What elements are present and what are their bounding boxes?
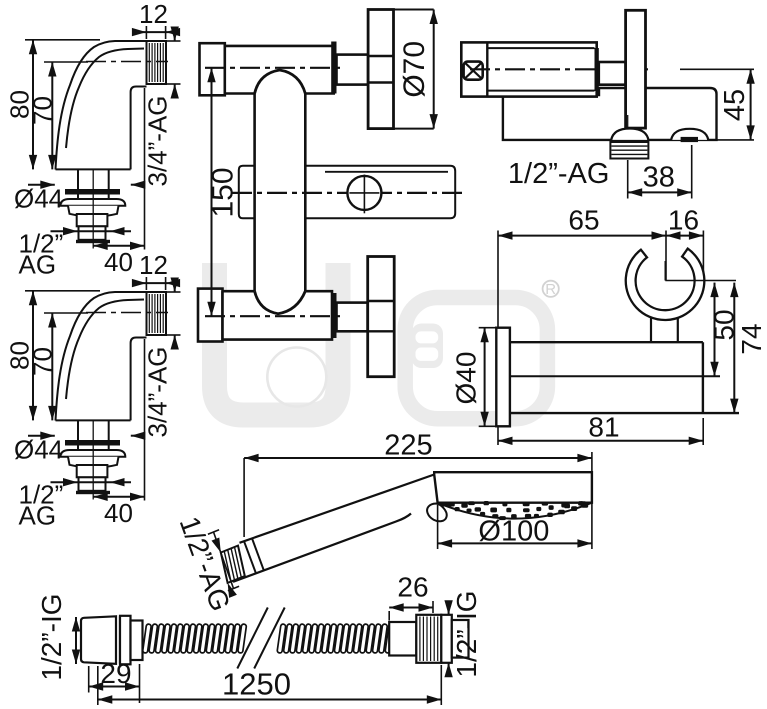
selector hook: [427, 504, 447, 522]
hand shower: [174, 430, 592, 616]
bottom valve centerline: [205, 315, 345, 317]
eccentric S-connector spout outline: [56, 292, 147, 421]
top valve centerline: [205, 67, 345, 69]
dim 150: [211, 68, 213, 316]
shower head: [434, 472, 592, 503]
svg-text:81: 81: [588, 412, 619, 443]
shower wall holder: [451, 204, 767, 445]
dim 50: [714, 283, 716, 377]
svg-text:R: R: [545, 281, 556, 298]
svg-text:26: 26: [397, 572, 428, 603]
diverter knob: [347, 176, 381, 210]
dim 40: [93, 496, 144, 498]
shower hose: [36, 572, 482, 706]
svg-text:65: 65: [568, 204, 599, 235]
body bottom / flange top: [56, 168, 131, 170]
valve body side: [461, 42, 596, 96]
svg-text:150: 150: [207, 167, 240, 217]
seal washer: [65, 189, 120, 195]
centerline: [470, 68, 648, 70]
nut lower section: [77, 465, 108, 477]
thread end cap: [76, 491, 110, 494]
svg-text:3/4”-AG: 3/4”-AG: [143, 95, 173, 186]
dim diameter 44: [28, 435, 55, 437]
svg-text:Ø40: Ø40: [451, 352, 482, 405]
svg-text:Ø70: Ø70: [398, 41, 431, 98]
cone nut: [68, 457, 119, 468]
svg-text:1/2”-IG: 1/2”-IG: [451, 590, 482, 677]
top valve body: [200, 43, 225, 95]
handle bar side: [626, 10, 646, 128]
mixer front view: [198, 10, 462, 377]
wall arm: [510, 341, 703, 343]
top valve end bar: [331, 42, 336, 94]
flange: [61, 199, 126, 206]
dim 1/2" AG: [51, 481, 132, 483]
svg-text:40: 40: [104, 498, 133, 528]
handle stem side: [599, 62, 626, 85]
nut dim arrows 1/2-IG: [448, 601, 450, 615]
left cone fitting: [81, 616, 116, 664]
registered trademark symbol: [543, 281, 559, 297]
flange: [61, 450, 126, 457]
dim 74: [733, 283, 735, 414]
spray face arc: [438, 503, 592, 519]
svg-text:38: 38: [643, 162, 675, 194]
dim 3/4"-AG thread length: [166, 291, 181, 293]
svg-text:45: 45: [719, 89, 751, 121]
svg-text:AG: AG: [19, 500, 57, 530]
ring center lines: [664, 261, 666, 281]
dim diameter 70: [394, 9, 434, 11]
mixer side view: [461, 10, 755, 198]
upper S-connector: [5, 0, 181, 279]
centerline: [86, 312, 168, 314]
svg-text:12: 12: [139, 0, 168, 29]
dim diameter 44: [28, 184, 55, 186]
inlet symbol: [464, 62, 483, 80]
svg-text:1/2”-IG: 1/2”-IG: [36, 593, 67, 680]
svg-text:AG: AG: [19, 249, 57, 279]
watermark logo: [215, 263, 548, 419]
wall disc: [496, 328, 510, 427]
spout neck right edge: [131, 338, 147, 421]
dim 40: [93, 245, 144, 247]
dim 80: [25, 39, 100, 41]
dim diameter 100: [437, 505, 439, 549]
end bar: [595, 48, 599, 91]
seal washer: [65, 440, 120, 446]
1/2 inch thread: [79, 226, 106, 240]
collar between thread and handle: [244, 541, 256, 573]
svg-text:40: 40: [104, 247, 133, 277]
neck below body: [77, 420, 79, 440]
center outlet dome: [627, 115, 629, 140]
svg-text:74: 74: [736, 323, 767, 354]
handle body: [240, 475, 435, 543]
left fitting dim arrows: [75, 617, 77, 664]
dim 81: [702, 418, 704, 445]
neck below body: [77, 169, 79, 189]
dim diameter 40: [479, 327, 496, 329]
centerline: [86, 61, 168, 63]
center axis line: [92, 420, 94, 499]
svg-text:70: 70: [28, 347, 58, 376]
3/4 inch male thread: [147, 41, 167, 84]
top handle stem: [337, 55, 369, 85]
svg-text:16: 16: [668, 204, 699, 235]
svg-text:Ø44: Ø44: [14, 435, 63, 465]
spray nozzles: [442, 503, 448, 507]
top arch: [255, 70, 306, 94]
svg-text:1/2”-AG: 1/2”-AG: [508, 158, 610, 190]
shower outlet dome: [671, 129, 708, 140]
center axis line: [92, 169, 94, 248]
knurled nut: [416, 615, 441, 663]
outlet thread nipple: [610, 142, 648, 159]
svg-text:70: 70: [28, 96, 58, 125]
svg-text:Ø100: Ø100: [478, 516, 549, 548]
bottom valve end bar: [331, 293, 336, 338]
cone nut: [68, 206, 119, 217]
spout neck right edge: [131, 87, 147, 170]
svg-text:Ø44: Ø44: [14, 184, 63, 214]
lower S-connector: [5, 250, 181, 530]
thread dim arrows: [214, 532, 234, 589]
corrugated hose: [143, 624, 152, 653]
right sleeve: [389, 622, 416, 656]
top cross handle: [368, 10, 393, 129]
svg-text:1250: 1250: [222, 667, 291, 702]
svg-text:12: 12: [139, 250, 168, 280]
3/4 inch male thread: [147, 292, 167, 335]
bottom valve body: [198, 289, 223, 342]
spout centerline: [232, 192, 462, 194]
wall plate: [503, 88, 717, 140]
dim 70: [44, 312, 88, 314]
break symbol: [237, 608, 267, 669]
holder ring stems: [650, 310, 652, 342]
tub spout bar: [239, 166, 255, 219]
body bottom / flange top: [56, 419, 131, 421]
eccentric S-connector spout outline: [56, 41, 147, 170]
column body: [253, 94, 256, 292]
dim 70: [44, 61, 88, 63]
dim 80: [25, 290, 100, 292]
dim 3/4"-AG thread length: [166, 40, 181, 42]
dim 45: [680, 68, 754, 70]
bottom arch: [255, 291, 306, 314]
thread end cap: [76, 240, 110, 243]
dim 1/2" AG: [51, 230, 132, 232]
svg-text:225: 225: [384, 430, 432, 462]
bottom cross handle: [368, 257, 395, 377]
1/2 inch thread: [79, 477, 106, 491]
1/2"-AG thread of hand shower: [221, 546, 245, 583]
C ring: [626, 249, 705, 320]
dim 38: [627, 160, 629, 199]
svg-text:3/4”-AG: 3/4”-AG: [143, 346, 173, 437]
nut lower section: [77, 214, 108, 226]
bottom handle stem: [337, 303, 368, 332]
